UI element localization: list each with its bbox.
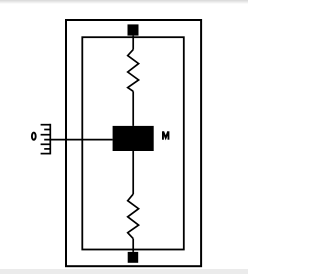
wire from top anchor to spring S1 — [132, 36, 134, 50]
outer housing wall — [66, 20, 201, 266]
node 0 reference label — [32, 133, 36, 140]
wire from mass M to spring S2 — [132, 151, 134, 194]
ruler short tick 6 — [44, 148, 50, 150]
ruler long tick 3 — [41, 134, 51, 136]
label M — [162, 131, 169, 139]
ruler short tick 2 — [44, 129, 50, 131]
wire from spring S2 to bottom anchor — [132, 239, 134, 252]
ruler long tick 5 — [41, 143, 51, 145]
ruler long tick 7 — [41, 153, 51, 155]
position sensor ruler: vertical bar — [49, 124, 51, 155]
output wire from sensor to mass — [44, 139, 112, 141]
ruler long tick 1 — [41, 124, 51, 126]
inner housing wall — [82, 37, 184, 249]
fixed support (top anchor square) — [128, 24, 139, 35]
wire from spring S1 to mass M — [132, 91, 134, 126]
spring S1 (upper spring) — [128, 50, 139, 92]
mass M body — [113, 126, 154, 151]
spring S2 (lower spring) — [128, 194, 139, 239]
fixed support (bottom anchor square) — [128, 252, 139, 263]
